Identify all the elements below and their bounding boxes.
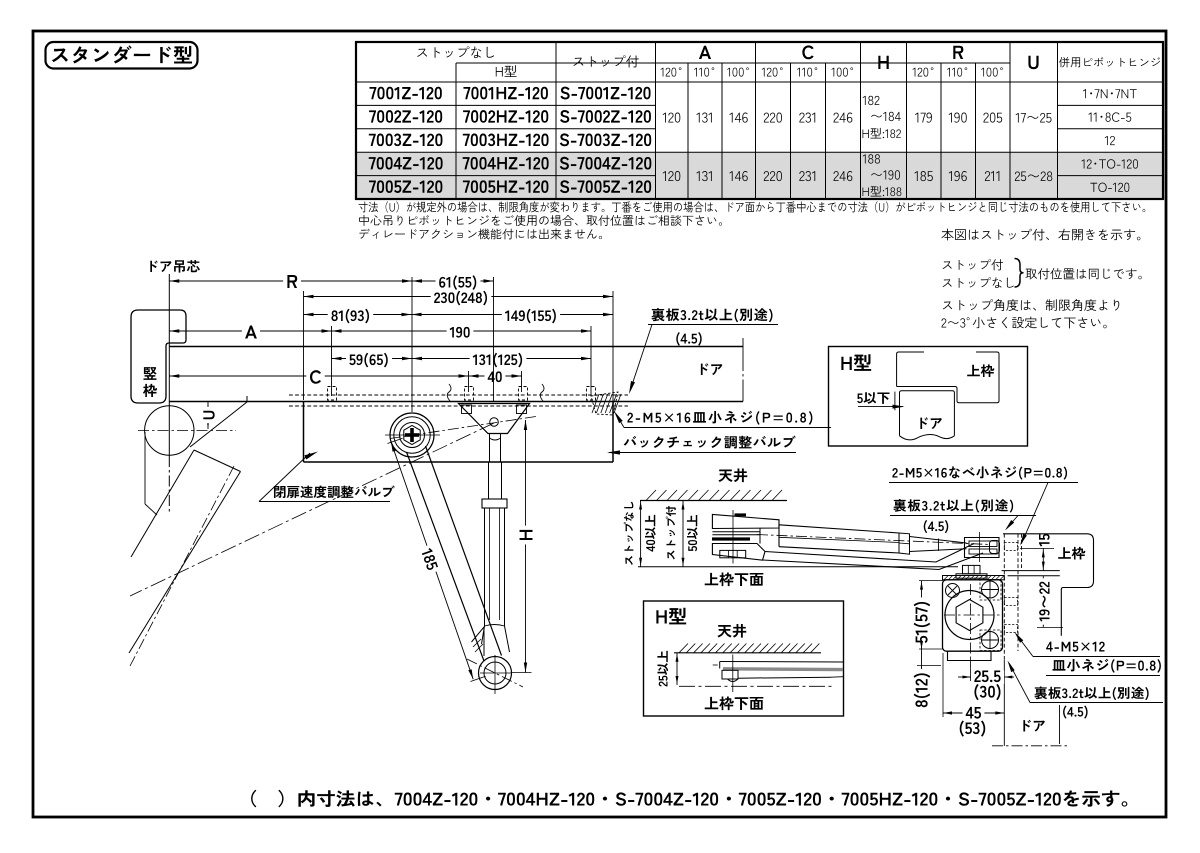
vertical frame 竪枠 outline xyxy=(131,310,186,403)
label 天井 side view xyxy=(718,469,747,483)
label ドア吊芯 xyxy=(150,260,200,272)
closer body plan rectangle xyxy=(303,402,305,463)
main arm diagonal xyxy=(407,452,485,661)
break squiggles xyxy=(447,384,451,401)
dim stop-nashi 40以上 xyxy=(640,501,642,567)
shoe taper xyxy=(482,626,485,644)
label ドア plan xyxy=(701,363,723,375)
dim 5以下 in box1 xyxy=(857,392,889,404)
label 上枠下面 box2 xyxy=(705,697,764,711)
rod lower tube xyxy=(484,508,486,626)
table outer border xyxy=(356,42,1163,199)
shoe pivot axis xyxy=(732,510,734,564)
crank nut and washer xyxy=(963,565,981,573)
dim H vertical xyxy=(525,420,527,673)
table horizontal lines xyxy=(456,62,656,64)
body outline front view xyxy=(943,580,1003,651)
arm main tube side view xyxy=(779,525,899,533)
pinion phillips cross xyxy=(405,433,419,437)
dim 15 xyxy=(1042,548,1044,570)
note stop brace xyxy=(943,259,1003,270)
table vertical lines xyxy=(455,63,457,199)
H type box 1 xyxy=(829,347,1028,447)
door hang centre line xyxy=(168,274,170,405)
label 裏板3.2t以上（別途） plan xyxy=(651,308,772,322)
table value cells upper block xyxy=(663,113,681,123)
label 裏板3.2t以上（別途） front view xyxy=(1034,687,1148,701)
pinion circles xyxy=(390,413,434,457)
table shaded rows 7004/7005 xyxy=(356,152,1163,199)
hinge circle xyxy=(145,406,194,455)
dim stop-tsuki 50以上 xyxy=(682,501,684,567)
frame underside right part xyxy=(1002,570,1060,572)
dim line R xyxy=(169,280,493,282)
rod hex nut xyxy=(482,499,507,508)
arm bracket trapezoid xyxy=(459,404,530,434)
ceiling line xyxy=(640,500,787,502)
dim 25.5 (30) xyxy=(958,676,973,678)
chain through shoe xyxy=(467,659,523,687)
dim 230(248) xyxy=(304,296,614,298)
185 extension ticks xyxy=(388,438,403,443)
label 2-M5×16皿小ネジ（P=0.8） xyxy=(627,411,812,425)
door outline in box1 xyxy=(900,391,955,436)
ceiling line box2 xyxy=(674,652,821,654)
dim 51(57) xyxy=(921,581,923,649)
leader to backplate xyxy=(630,325,652,392)
label 裏板3.2t以上（別途） side view xyxy=(893,499,1013,513)
dim 45 (53) xyxy=(943,712,1004,714)
table value cells lower block xyxy=(663,171,681,181)
fork bracket xyxy=(965,538,1000,558)
arm tube hex coupling xyxy=(899,533,910,554)
dim 81(93) and 149(155) xyxy=(304,314,614,316)
top frame 上枠 cross-section xyxy=(1003,534,1094,636)
table pivot hinge column values xyxy=(1083,89,1137,98)
body top hatched plate xyxy=(943,576,1005,580)
door face line front view xyxy=(1003,571,1005,660)
shoe nut xyxy=(720,550,746,557)
label 竪枠 xyxy=(144,367,157,380)
door bottom chain line xyxy=(992,745,1067,747)
pinion centre lines xyxy=(385,434,440,436)
chain line pinion to bracket pivot xyxy=(390,417,536,439)
table footnotes xyxy=(359,201,1146,212)
arm pivot block box2 xyxy=(722,670,738,679)
shoe circle xyxy=(479,657,512,690)
body centre lines xyxy=(970,584,972,657)
body hexagon xyxy=(956,600,983,631)
body phillips screws xyxy=(982,581,999,598)
open door panel xyxy=(131,450,194,557)
door top edge line xyxy=(169,346,743,348)
label 天井 box2 xyxy=(717,624,746,638)
dim line A and 190 xyxy=(169,330,591,332)
hinge horizontal chain line xyxy=(138,430,236,432)
label 2-M5×16なべ小ネジ（P=0.8） xyxy=(892,466,1067,479)
dim 19~22 xyxy=(1042,576,1044,628)
shoe lower bracket xyxy=(712,544,765,561)
shoe centre lines xyxy=(480,672,511,674)
arm flat box2 xyxy=(720,661,843,664)
door break edge right xyxy=(742,338,744,360)
body bottom plate xyxy=(948,651,992,660)
backplate behind door xyxy=(1017,534,1019,651)
title box スタンダード型 xyxy=(46,42,198,69)
note stop angle xyxy=(943,299,1120,311)
label 上枠下面 side view xyxy=(705,573,764,587)
arm rod xyxy=(910,537,967,544)
open door edge at hinge xyxy=(190,402,247,447)
upper frame outline in box1 xyxy=(897,352,924,387)
hatched countersunk screws xyxy=(591,392,618,415)
wall lines below frame xyxy=(144,432,146,504)
table model number cells xyxy=(369,87,441,100)
arm shoe assembly side view xyxy=(712,514,779,528)
fork pin xyxy=(979,532,981,562)
H type box 2 xyxy=(644,601,844,716)
dim 25以上 box2 xyxy=(676,653,678,685)
dim 185 along arm xyxy=(391,442,473,679)
door stop top edge xyxy=(1008,575,1060,577)
note 本図はストップ付 xyxy=(941,229,1140,241)
bottom caption xyxy=(251,790,1127,808)
main rod closed position xyxy=(489,434,491,463)
pinion hexagon xyxy=(404,426,420,445)
ceiling hatch xyxy=(646,490,656,501)
pivot axis box2 xyxy=(732,655,734,693)
open rod axis chain line xyxy=(130,423,494,596)
shoe gusset xyxy=(472,627,485,656)
4.5 extension line xyxy=(1059,705,1061,744)
door bottom edge line xyxy=(169,401,743,403)
dim 61(55) xyxy=(412,279,422,282)
table header texts xyxy=(417,46,494,58)
hidden backplate lines xyxy=(289,394,628,396)
dim line C and 40 xyxy=(169,375,521,377)
hidden mounting screws xyxy=(328,387,337,401)
mounting plate side view xyxy=(1003,534,1005,571)
label 閉扉速度調整バルブ xyxy=(274,485,395,498)
label バックチェック調整バルブ xyxy=(624,436,796,449)
dim U xyxy=(207,402,209,429)
label ドア front view xyxy=(1023,720,1045,732)
body X screw xyxy=(946,584,960,598)
extension lines xyxy=(303,291,305,400)
dim 59(65) and 131(125) xyxy=(332,358,592,360)
body pinion circle front xyxy=(945,591,994,640)
underside chain line box2 xyxy=(679,685,833,687)
open door centre chain line xyxy=(130,466,234,666)
label 4-M5×12 皿小ネジ xyxy=(1046,642,1105,652)
dim 8(12) xyxy=(921,641,923,674)
bracket pivot xyxy=(490,418,499,427)
frame underside line xyxy=(638,566,958,568)
arm axis chain line xyxy=(757,535,990,545)
main arm bar to crank xyxy=(765,544,974,563)
